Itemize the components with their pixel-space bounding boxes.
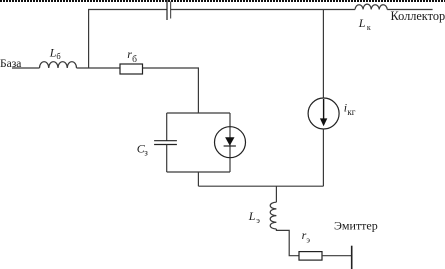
svg-text:з: з [144,147,148,157]
dotted boundary line [0,0,445,2]
wire: rб to box corner [143,68,199,113]
wire: box bottom edge [167,171,230,173]
wire: box top edge [167,112,230,114]
wire: bottom rail [198,185,323,187]
svg-text:к: к [367,23,371,32]
resistor rэ [299,252,322,261]
wire: box left edge lower [166,145,168,173]
inductor Lэ [270,202,276,229]
wire: top rail right of capacitor [171,9,356,11]
wire: box to bottom rail [197,172,199,186]
svg-text:База: База [0,58,21,70]
diode D triangle and bar [225,137,234,145]
inductor Lб [40,62,77,68]
wire: box right edge [229,113,231,172]
wire: base lead [12,67,40,69]
wire: top rail left of capacitor [89,10,167,69]
inductor Lк [355,4,387,9]
svg-text:б: б [56,51,60,61]
svg-text:Эмиттер: Эмиттер [334,219,378,233]
emitter terminal bar [351,246,353,269]
wire: current source to bottom rail [322,129,324,186]
wire: top rail to current source [322,10,324,99]
svg-text:L: L [248,209,256,223]
svg-text:э: э [306,235,310,245]
wire: collector lead [387,9,432,11]
resistor rб [120,64,143,74]
svg-text:э: э [256,215,260,225]
capacitor Cз [154,141,177,145]
wire: Lэ to rэ [276,229,299,256]
svg-text:Коллектор: Коллектор [391,9,445,23]
svg-text:б: б [132,54,137,65]
diode D (varactor) circle [215,127,246,158]
svg-text:кг: кг [347,107,355,117]
wire: box left edge upper [166,113,168,141]
wire: base lead to resistor [77,67,121,69]
wire: rail to Lэ [275,186,277,202]
current source arrow [323,99,325,119]
wire: rэ to emitter [322,255,352,257]
capacitor (coupling, top) [167,0,171,20]
current source iкг circle [308,98,339,129]
svg-text:L: L [358,16,366,30]
